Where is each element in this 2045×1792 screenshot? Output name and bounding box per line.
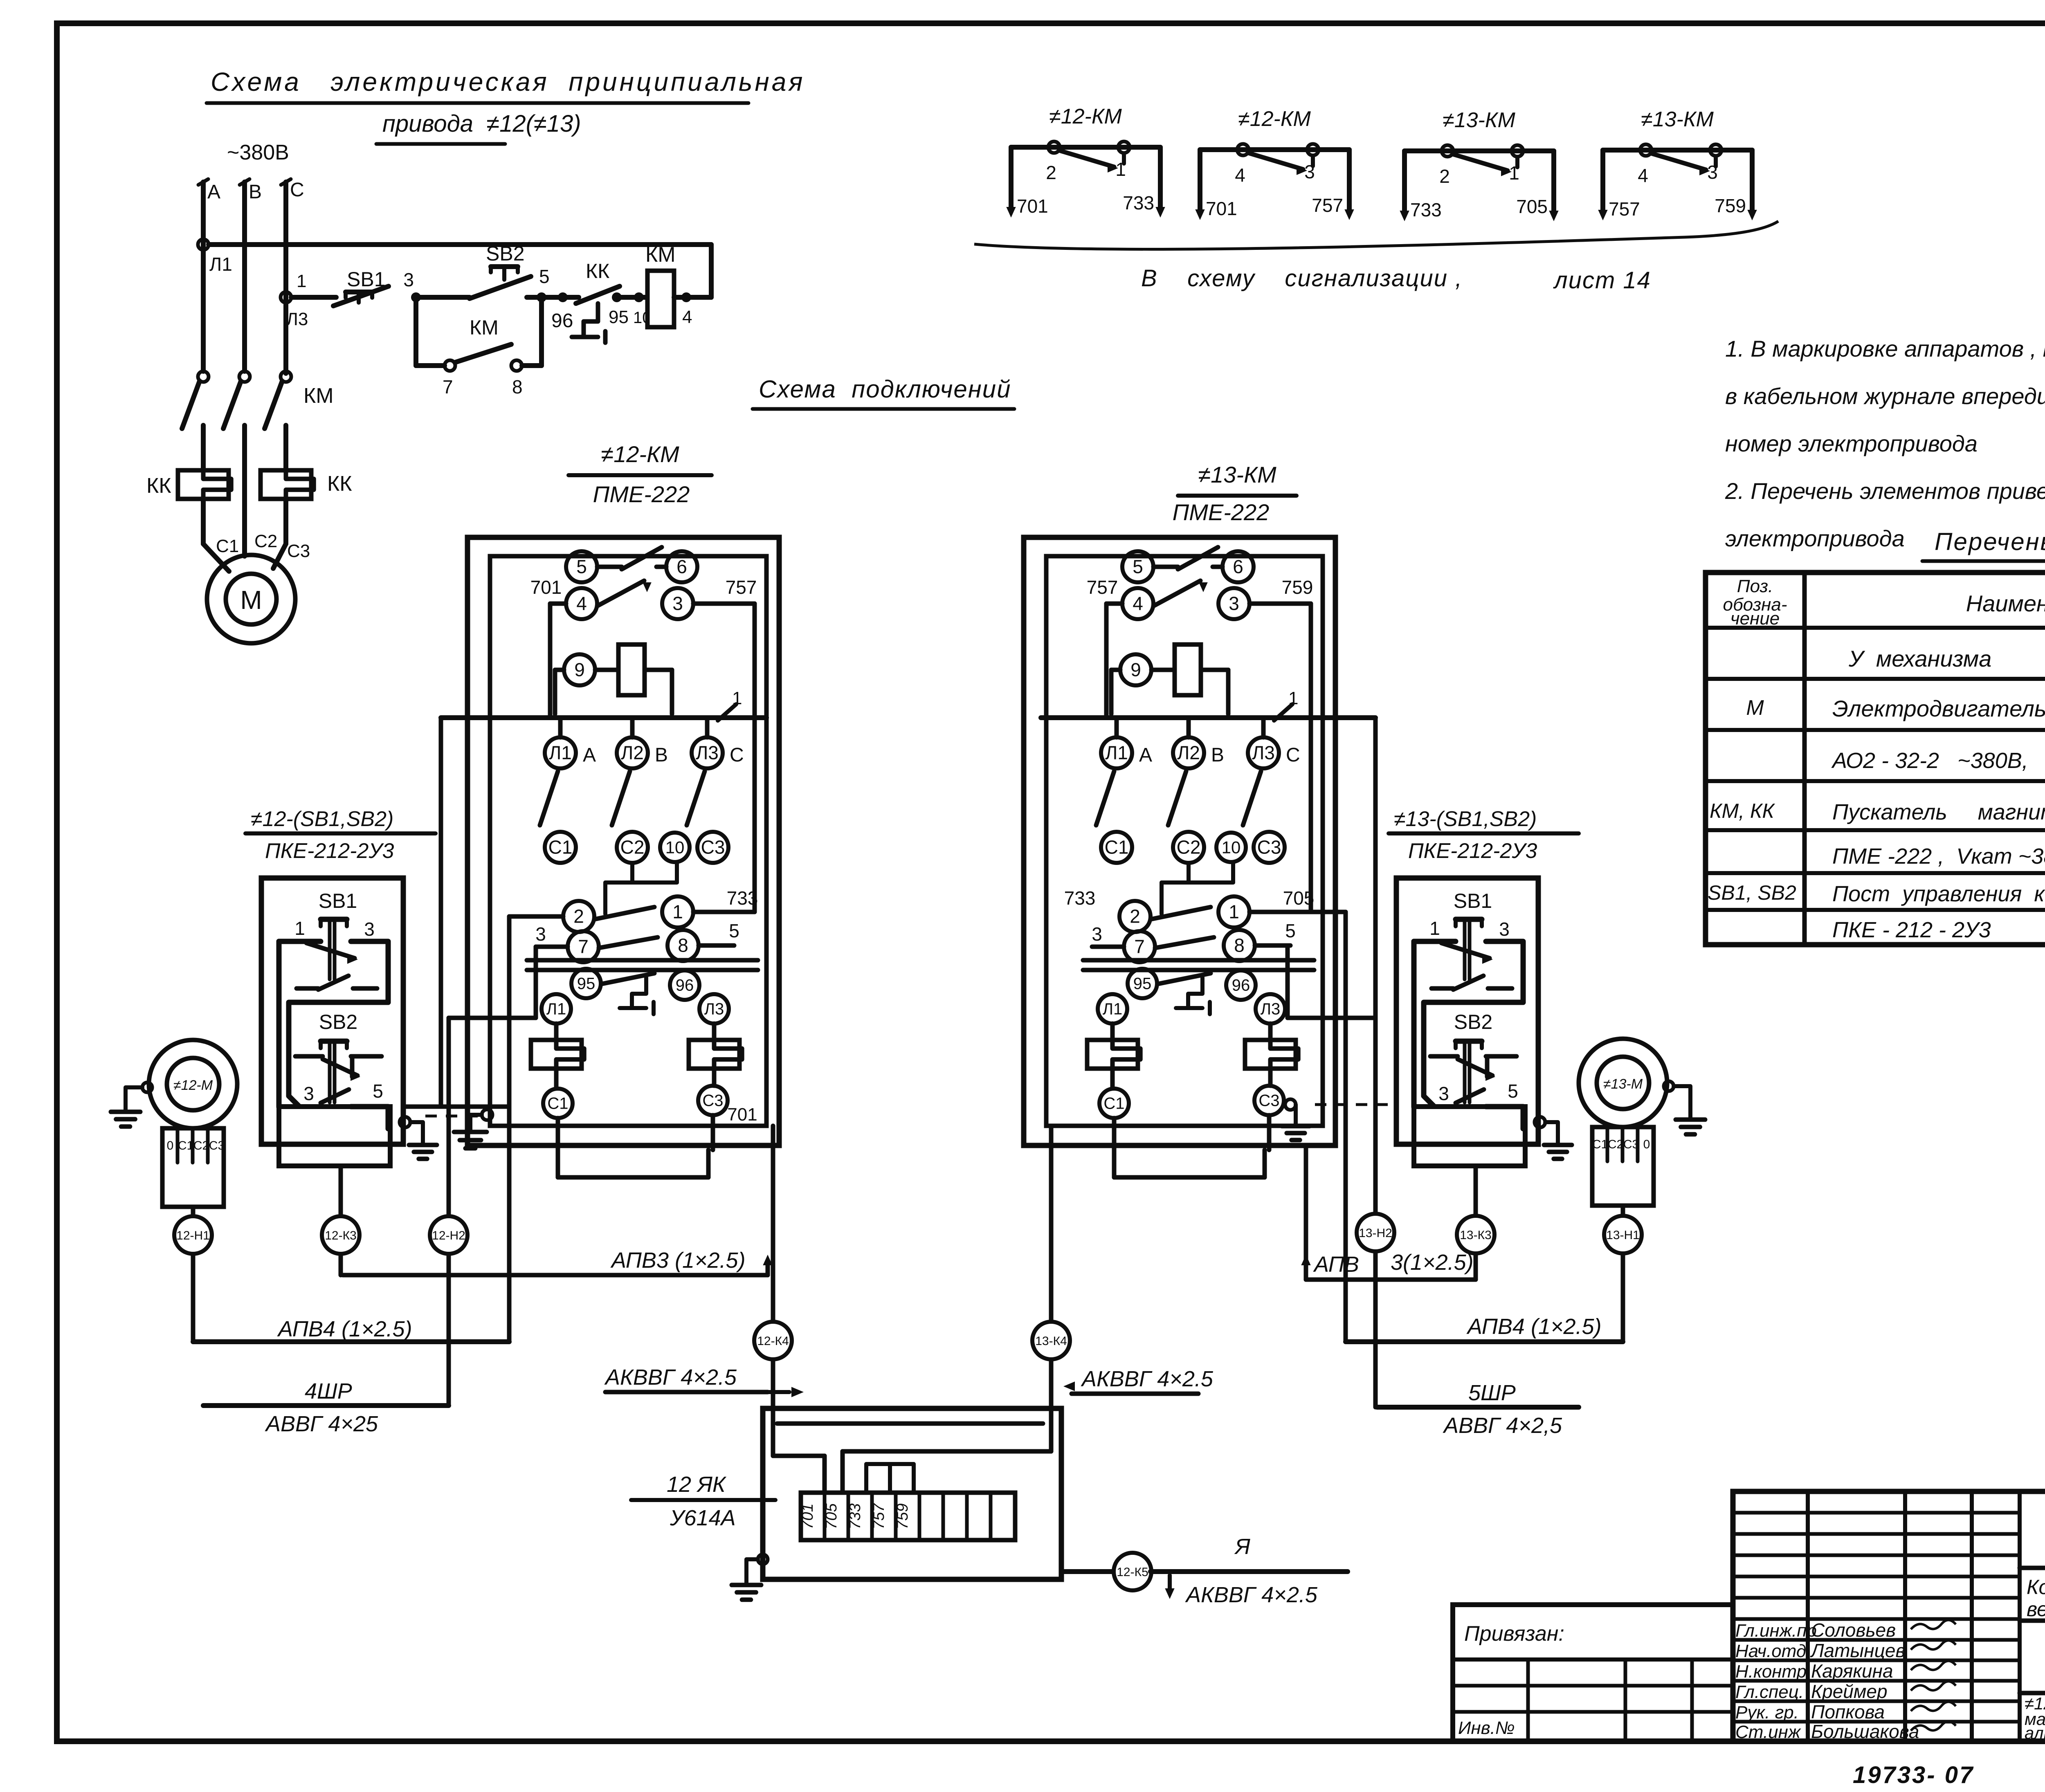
junction 96 — [558, 292, 568, 302]
svg-text:SB2: SB2 — [486, 242, 525, 265]
svg-text:5: 5 — [539, 266, 550, 287]
svg-text:3: 3 — [1229, 593, 1239, 614]
svg-text:Л1: Л1 — [209, 254, 232, 275]
svg-text:Котельная с4котлами „Факел”и 2: Котельная с4котлами „Факел”и 2 контактно… — [2027, 1576, 2045, 1599]
svg-text:4: 4 — [1133, 593, 1143, 614]
svg-text:7: 7 — [1134, 936, 1145, 957]
svg-text:Л3: Л3 — [704, 1000, 724, 1018]
svg-text:3(1×2.5): 3(1×2.5) — [1391, 1250, 1474, 1275]
svg-text:757: 757 — [870, 1502, 888, 1529]
svg-text:Схема электрическая принцип: Схема электрическая принципиальная — [211, 67, 805, 97]
wire motor 13 to 13-N1 — [1621, 1217, 1625, 1342]
svg-text:Л2: Л2 — [1177, 742, 1200, 764]
svg-text:С2: С2 — [1177, 837, 1201, 858]
wire to 12-K5 — [1061, 1569, 1115, 1574]
svg-text:Пускатель магнитный: Пускатель магнитный — [1832, 800, 2045, 824]
svg-text:АВВГ 4×2,5: АВВГ 4×2,5 — [1443, 1413, 1562, 1438]
svg-text:Ст.инж: Ст.инж — [1735, 1722, 1801, 1742]
svg-text:С1: С1 — [178, 1139, 193, 1152]
heater KK phase A — [178, 470, 229, 499]
svg-text:5: 5 — [1508, 1080, 1518, 1102]
ground at button post 13 — [1535, 1117, 1545, 1127]
arrow down after 12-K5 — [1168, 1575, 1172, 1589]
circle 13-K3 — [1457, 1216, 1494, 1253]
motor 13-M — [1579, 1039, 1667, 1127]
svg-text:SB2: SB2 — [319, 1011, 358, 1033]
svg-text:12-Н1: 12-Н1 — [176, 1229, 210, 1242]
wire top bus to coil loop — [209, 242, 711, 247]
wire APV4 drop right — [1344, 912, 1348, 1342]
node 7 — [445, 360, 455, 371]
wire rung segment — [416, 295, 470, 300]
svg-text:0: 0 — [1643, 1138, 1650, 1151]
starter box 12-KM PME-222 — [467, 537, 779, 1145]
svg-text:Л1: Л1 — [549, 742, 572, 764]
svg-text:≠13-КМ: ≠13-КМ — [1443, 108, 1515, 132]
svg-text:в кабельном журнале впереди: в кабельном журнале впереди проставляетс… — [1725, 383, 2045, 409]
svg-text:733: 733 — [1410, 199, 1442, 220]
wire left riser to button post — [439, 718, 443, 1107]
button post 12 (SB1,SB2) — [261, 878, 403, 1144]
junction box inner top edge — [777, 1421, 1043, 1426]
svg-text:Н.контр: Н.контр — [1735, 1662, 1807, 1682]
svg-text:С2: С2 — [193, 1139, 209, 1152]
svg-text:Л3: Л3 — [696, 742, 719, 764]
title block grid — [1733, 1491, 2045, 1741]
svg-text:КМ, КК: КМ, КК — [1710, 799, 1775, 822]
svg-text:АПВ: АПВ — [1313, 1252, 1359, 1277]
svg-text:12 ЯК: 12 ЯК — [667, 1472, 727, 1497]
wire APV4 run right — [1346, 1339, 1623, 1344]
svg-text:≠13-(SB1,SB2): ≠13-(SB1,SB2) — [1394, 807, 1537, 831]
svg-text:С3: С3 — [701, 837, 725, 858]
svg-text:705: 705 — [1516, 196, 1548, 217]
svg-text:альная Схема подключений.: альная Схема подключений. — [2025, 1723, 2045, 1743]
svg-text:КМ: КМ — [645, 243, 676, 267]
wire rung segment — [542, 295, 579, 300]
svg-text:757: 757 — [1087, 577, 1118, 598]
title block doc number cell — [2020, 1566, 2045, 1570]
svg-text:≠12-КМ: ≠12-КМ — [1049, 105, 1122, 128]
title block object description — [2020, 1619, 2045, 1623]
svg-text:1: 1 — [294, 918, 305, 939]
signal contact group 13-KM (2-1) — [1405, 148, 1554, 153]
KM main contact phase B — [239, 371, 250, 382]
wire bus net 1 right box — [1041, 715, 1375, 720]
svg-text:Рук. гр.: Рук. гр. — [1735, 1702, 1799, 1722]
svg-text:1: 1 — [297, 271, 306, 291]
svg-text:701: 701 — [799, 1503, 816, 1529]
svg-text:759: 759 — [1715, 195, 1746, 216]
svg-text:А: А — [1139, 744, 1152, 766]
svg-text:≠12-(SB1,SB2): ≠12-(SB1,SB2) — [251, 807, 393, 831]
svg-text:12-К3: 12-К3 — [325, 1229, 357, 1242]
wire bus net 1 left box — [441, 715, 766, 720]
wire 13-K4 riser — [1049, 1126, 1054, 1408]
pushbutton SB1 (NC) — [333, 286, 389, 306]
svg-text:8: 8 — [1234, 935, 1245, 956]
motor M — [207, 555, 295, 643]
svg-text:У механизма: У механизма — [1848, 646, 1991, 671]
ground at right box — [1285, 1099, 1296, 1110]
svg-text:12-Н2: 12-Н2 — [432, 1229, 465, 1242]
svg-text:В: В — [655, 744, 668, 766]
svg-text:733: 733 — [727, 887, 758, 909]
svg-text:С1: С1 — [216, 536, 239, 556]
wire coil to loop — [674, 295, 711, 300]
svg-text:С3: С3 — [1258, 1092, 1279, 1110]
svg-text:≠12-КМ: ≠12-КМ — [1238, 107, 1311, 131]
svg-text:9: 9 — [1130, 659, 1141, 680]
svg-text:КК: КК — [146, 474, 171, 498]
svg-text:95: 95 — [1133, 975, 1152, 993]
svg-text:Л3: Л3 — [286, 309, 308, 329]
wire A to motor — [201, 499, 206, 544]
svg-text:А: А — [207, 181, 220, 203]
wire phase A — [201, 182, 206, 371]
svg-text:С1: С1 — [547, 1095, 568, 1113]
KM main contact phase A — [198, 371, 209, 382]
svg-text:С: С — [290, 179, 304, 201]
wire APV4 run left — [193, 1339, 509, 1344]
svg-text:М: М — [240, 585, 262, 615]
svg-text:номер электропривода: номер электропривода — [1725, 431, 1978, 456]
svg-text:733: 733 — [847, 1503, 864, 1529]
svg-text:2: 2 — [573, 906, 584, 927]
svg-text:≠13-М: ≠13-М — [1603, 1076, 1643, 1092]
svg-text:705: 705 — [823, 1503, 840, 1529]
svg-text:5: 5 — [1133, 556, 1143, 577]
svg-text:0: 0 — [167, 1139, 174, 1152]
svg-text:2: 2 — [1046, 162, 1056, 183]
svg-text:4: 4 — [682, 307, 692, 327]
svg-text:5ШР: 5ШР — [1468, 1381, 1516, 1405]
svg-text:3: 3 — [672, 593, 683, 614]
svg-text:Л1: Л1 — [546, 1000, 566, 1018]
svg-text:13-Н2: 13-Н2 — [1359, 1226, 1392, 1240]
svg-text:С1: С1 — [1592, 1138, 1608, 1151]
svg-text:9: 9 — [574, 659, 585, 680]
svg-text:Л3: Л3 — [1261, 1000, 1281, 1018]
wire C to motor — [283, 499, 288, 544]
svg-text:С3: С3 — [209, 1139, 225, 1152]
svg-text:С: С — [1286, 744, 1300, 766]
svg-text:ПКЕ - 212 - 2У3: ПКЕ - 212 - 2У3 — [1832, 918, 1991, 942]
svg-text:В: В — [1211, 744, 1224, 766]
svg-text:4: 4 — [576, 593, 587, 614]
svg-text:5: 5 — [1285, 920, 1296, 941]
svg-text:4: 4 — [1638, 165, 1648, 186]
svg-text:АО2 - 32-2 ~380В, 4 КВТ ,: АО2 - 32-2 ~380В, 4 КВТ , 8А — [1831, 748, 2045, 773]
svg-text:электропривода: электропривода — [1725, 525, 1905, 551]
terminal strip in junction box — [801, 1493, 1015, 1540]
svg-text:КМ: КМ — [303, 384, 334, 408]
svg-text:ПКЕ-212-2У3: ПКЕ-212-2У3 — [1408, 839, 1537, 863]
svg-text:С1: С1 — [548, 837, 573, 858]
svg-text:С2: С2 — [1608, 1138, 1623, 1151]
svg-text:ПМЕ-222: ПМЕ-222 — [593, 481, 690, 507]
svg-text:Наименование: Наименование — [1966, 591, 2045, 616]
svg-text:8: 8 — [512, 376, 523, 397]
circle 12-K4 — [754, 1322, 792, 1359]
wire to coil — [617, 295, 647, 300]
svg-text:С1: С1 — [1103, 1095, 1124, 1113]
svg-text:С3: С3 — [1623, 1138, 1639, 1151]
svg-text:SB1: SB1 — [347, 268, 386, 291]
svg-text:SB1: SB1 — [1454, 889, 1492, 912]
svg-text:Карякина: Карякина — [1811, 1660, 1893, 1682]
aux contact KM — [455, 344, 511, 362]
svg-text:SB1: SB1 — [319, 889, 357, 912]
wires inside junction box — [771, 1408, 775, 1456]
svg-text:2. Перечень элементов прив: 2. Перечень элементов приведен для одног… — [1725, 478, 2045, 504]
svg-text:701: 701 — [530, 577, 562, 598]
svg-text:Соловьев: Соловьев — [1811, 1619, 1896, 1641]
signal contact group 13-KM (4-3) — [1603, 148, 1752, 153]
circle 13-N2 — [1357, 1214, 1394, 1251]
svg-text:Гл.инж.пр: Гл.инж.пр — [1735, 1621, 1817, 1641]
svg-text:2: 2 — [1439, 166, 1450, 187]
junction 4 — [681, 292, 691, 302]
node L1 on phase A — [198, 239, 209, 250]
wire right riser 13-N2 — [1288, 1016, 1375, 1020]
svg-text:ПМЕ-222: ПМЕ-222 — [1173, 499, 1270, 525]
wire phase B — [242, 182, 247, 371]
svg-text:верхностными водонагревателями: верхностными водонагревателями ФНКВ-1М — [2027, 1598, 2045, 1621]
svg-text:95: 95 — [609, 307, 629, 327]
svg-text:Л1: Л1 — [1105, 742, 1128, 764]
svg-text:С3: С3 — [1257, 837, 1281, 858]
svg-text:≠13-КМ: ≠13-КМ — [1641, 108, 1714, 131]
svg-text:лист 14: лист 14 — [1553, 267, 1651, 294]
cable 4ShR line — [203, 1403, 449, 1408]
signal contact group 12-KM (2-1) — [1011, 145, 1160, 150]
privyazan box grid — [1453, 1605, 1733, 1741]
node 1/L3 on phase C — [281, 292, 291, 303]
svg-text:Попкова: Попкова — [1811, 1701, 1885, 1722]
wire latch branch right — [522, 363, 542, 368]
svg-text:Нач.отд: Нач.отд — [1735, 1641, 1806, 1661]
circle 12-N1 — [174, 1216, 212, 1254]
svg-text:Пост управления кнопочный: Пост управления кнопочный — [1832, 882, 2045, 906]
wire 12-K4 riser — [771, 1126, 775, 1408]
node 5 — [537, 292, 546, 302]
circle 12-K3 — [322, 1216, 360, 1254]
svg-text:С3: С3 — [702, 1092, 723, 1110]
svg-text:701: 701 — [1206, 198, 1237, 219]
svg-text:АКВВГ 4×2.5: АКВВГ 4×2.5 — [1185, 1583, 1318, 1607]
svg-text:3: 3 — [1092, 923, 1102, 945]
svg-text:13-К4: 13-К4 — [1035, 1334, 1067, 1348]
wire button post 13 to 13-K3 — [1474, 1166, 1478, 1280]
svg-text:757: 757 — [1312, 195, 1343, 216]
junction 95 — [612, 292, 622, 302]
svg-text:10: 10 — [665, 838, 685, 857]
svg-text:ПКЕ-212-2У3: ПКЕ-212-2У3 — [265, 839, 394, 863]
svg-text:С: С — [730, 744, 744, 766]
svg-text:1: 1 — [1229, 901, 1239, 923]
svg-text:7: 7 — [443, 376, 453, 397]
junction 10 — [634, 292, 644, 302]
wire Ya cable — [1151, 1569, 1348, 1574]
ground at left box — [482, 1109, 492, 1120]
starter box 13-KM PME-222 — [1024, 537, 1335, 1145]
wire button post 12 to 12-K3 — [339, 1166, 343, 1275]
junction box 12YaK — [763, 1408, 1061, 1579]
svg-text:3: 3 — [1438, 1083, 1449, 1104]
svg-text:3: 3 — [1707, 162, 1718, 183]
signal contact group 12-KM (4-3) — [1200, 147, 1349, 152]
ground at button post 12 — [400, 1117, 410, 1127]
svg-text:1: 1 — [672, 901, 683, 923]
svg-text:95: 95 — [577, 975, 596, 993]
pushbutton SB2 (NO) — [470, 276, 531, 299]
svg-text:А: А — [583, 744, 596, 766]
svg-text:759: 759 — [894, 1503, 911, 1529]
element list table grid — [1706, 573, 2045, 945]
wire APV4 drop — [507, 916, 512, 1342]
svg-text:6: 6 — [1233, 556, 1243, 577]
svg-text:АВВГ 4×25: АВВГ 4×25 — [265, 1412, 378, 1436]
svg-text:≠12-КМ: ≠12-КМ — [601, 441, 679, 467]
svg-text:1: 1 — [1115, 159, 1126, 180]
svg-text:13-Н1: 13-Н1 — [1606, 1228, 1640, 1242]
KM main contact phase C — [281, 371, 291, 382]
svg-text:96: 96 — [551, 310, 573, 332]
svg-text:КМ: КМ — [470, 316, 499, 339]
svg-text:733: 733 — [1064, 887, 1096, 909]
svg-text:Л2: Л2 — [621, 742, 644, 764]
svg-text:12-К4: 12-К4 — [757, 1334, 789, 1348]
svg-text:3: 3 — [1304, 161, 1315, 182]
node 8 — [511, 360, 522, 371]
node 3 — [411, 292, 421, 302]
svg-text:~380В: ~380В — [227, 141, 289, 164]
svg-text:757: 757 — [1609, 198, 1640, 220]
svg-text:19733- 07: 19733- 07 — [1853, 1762, 1974, 1788]
svg-text:КК: КК — [327, 472, 352, 496]
svg-text:3: 3 — [535, 923, 546, 945]
svg-text:5: 5 — [576, 556, 587, 577]
svg-text:Инв.№: Инв.№ — [1458, 1718, 1515, 1738]
svg-text:13-К3: 13-К3 — [1460, 1228, 1492, 1242]
svg-text:3: 3 — [364, 918, 375, 940]
svg-text:КК: КК — [586, 260, 609, 283]
svg-text:Электродвигатель: Электродвигатель — [1832, 696, 2045, 721]
svg-text:В схему сигнализации ,: В схему сигнализации , — [1141, 265, 1463, 292]
wire latch branch left — [413, 297, 418, 366]
svg-text:5: 5 — [373, 1080, 383, 1102]
svg-text:≠13-КМ: ≠13-КМ — [1198, 462, 1276, 487]
svg-text:3: 3 — [1499, 918, 1510, 940]
svg-text:5: 5 — [729, 920, 739, 941]
wire rung segment — [291, 295, 336, 300]
wire phase C — [283, 182, 288, 373]
svg-text:Поз.: Поз. — [1737, 576, 1773, 596]
circle 12-N2 — [430, 1216, 467, 1254]
motor 12-M — [149, 1040, 237, 1128]
circle 12-K5 — [1114, 1553, 1151, 1590]
svg-text:С1: С1 — [1105, 837, 1129, 858]
svg-text:У614А: У614А — [670, 1506, 736, 1530]
svg-text:АПВ3 (1×2.5): АПВ3 (1×2.5) — [610, 1248, 746, 1273]
cable 5ShR line — [1377, 1405, 1579, 1410]
svg-text:Л3: Л3 — [1252, 742, 1275, 764]
svg-text:Перечень элементов: Перечень элементов — [1935, 528, 2045, 555]
svg-text:≠12-М: ≠12-М — [173, 1078, 213, 1093]
wire APV3 run left — [343, 1273, 768, 1278]
svg-text:Латынцев: Латынцев — [1810, 1640, 1906, 1661]
svg-text:4ШР: 4ШР — [305, 1379, 352, 1404]
svg-text:4: 4 — [1235, 164, 1245, 186]
svg-text:привода ≠12(≠13): привода ≠12(≠13) — [382, 110, 581, 137]
svg-text:701: 701 — [1017, 195, 1048, 217]
svg-text:1: 1 — [1509, 162, 1519, 184]
ground at junction box — [758, 1554, 768, 1564]
svg-text:АКВВГ 4×2.5: АКВВГ 4×2.5 — [1081, 1367, 1214, 1391]
svg-text:3: 3 — [303, 1083, 314, 1104]
svg-text:7: 7 — [578, 936, 589, 957]
svg-text:АПВ4 (1×2.5): АПВ4 (1×2.5) — [1466, 1314, 1602, 1339]
svg-text:10: 10 — [1222, 838, 1241, 857]
svg-text:1. В маркировке аппаратов ,: 1. В маркировке аппаратов , проводов, ка… — [1725, 336, 2045, 362]
svg-text:6: 6 — [676, 556, 687, 577]
button post 13 (SB1,SB2) — [1396, 878, 1538, 1144]
wire APV3 run right — [1306, 1278, 1476, 1282]
svg-text:96: 96 — [1232, 977, 1250, 995]
svg-text:С3: С3 — [287, 541, 310, 561]
heater KK phase C — [261, 470, 311, 499]
svg-text:705: 705 — [1283, 887, 1315, 909]
svg-text:Схема подключений: Схема подключений — [759, 375, 1011, 403]
circle 13-K4 — [1032, 1322, 1070, 1359]
svg-text:С2: С2 — [254, 531, 277, 551]
svg-text:1: 1 — [1429, 918, 1440, 939]
svg-text:Привязан:: Привязан: — [1464, 1622, 1564, 1646]
svg-text:М: М — [1746, 696, 1764, 720]
svg-text:759: 759 — [1282, 577, 1313, 598]
svg-text:8: 8 — [678, 935, 688, 956]
svg-text:SB1, SB2: SB1, SB2 — [1708, 881, 1796, 904]
svg-text:АПВ4 (1×2.5): АПВ4 (1×2.5) — [277, 1317, 412, 1341]
brace under signal groups — [974, 221, 1778, 249]
wire motor 12 to 12-N1 — [191, 1218, 196, 1342]
svg-text:Л1: Л1 — [1103, 1000, 1123, 1018]
svg-text:3: 3 — [403, 269, 414, 290]
wire rung segment — [527, 295, 542, 300]
svg-text:2: 2 — [1130, 906, 1140, 927]
svg-text:АКВВГ 4×2.5: АКВВГ 4×2.5 — [604, 1365, 737, 1390]
coil KM — [647, 271, 674, 327]
svg-text:96: 96 — [676, 977, 694, 995]
svg-text:757: 757 — [726, 577, 757, 598]
svg-text:Гл.спец.: Гл.спец. — [1735, 1682, 1804, 1702]
svg-text:С2: С2 — [620, 837, 645, 858]
svg-text:12-К5: 12-К5 — [1117, 1565, 1148, 1579]
circle 13-N1 — [1604, 1216, 1642, 1253]
svg-text:чение: чение — [1730, 609, 1780, 629]
svg-text:701: 701 — [727, 1105, 757, 1125]
svg-text:В: В — [249, 181, 262, 203]
svg-text:733: 733 — [1123, 192, 1154, 213]
svg-text:Я: Я — [1234, 1534, 1250, 1559]
thermal contact KK — [576, 286, 620, 303]
svg-text:Большакова: Большакова — [1811, 1721, 1919, 1742]
wire 12-N2 riser — [449, 1016, 536, 1020]
svg-text:Креймер: Креймер — [1811, 1681, 1888, 1702]
svg-text:ПМЕ -222 , Vкат ~380 В , Iт =: ПМЕ -222 , Vкат ~380 В , Iт = 8 А — [1832, 844, 2045, 869]
svg-text:SB2: SB2 — [1454, 1011, 1493, 1033]
